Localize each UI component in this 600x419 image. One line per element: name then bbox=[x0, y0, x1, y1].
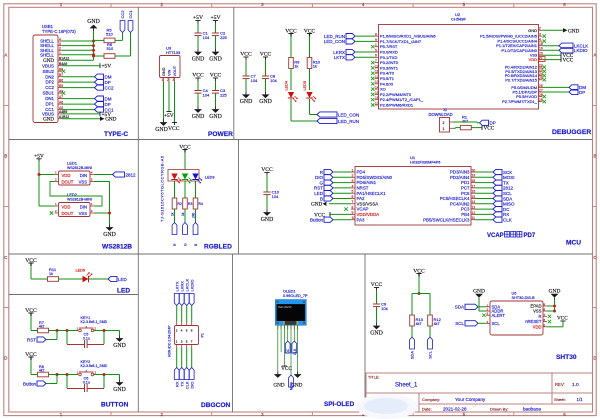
ground flag above U6 ADDR bbox=[473, 289, 486, 312]
svg-text:4: 4 bbox=[59, 37, 61, 41]
svg-text:GND: GND bbox=[568, 28, 579, 34]
wire DBGCON top pin bbox=[176, 306, 178, 323]
IC LED1 WS2812B-MINI bbox=[55, 161, 95, 186]
svg-text:GND: GND bbox=[155, 127, 168, 133]
svg-text:GND: GND bbox=[192, 114, 205, 120]
svg-text:VDD: VDD bbox=[62, 205, 71, 210]
svg-text:BUTTON: BUTTON bbox=[101, 402, 129, 409]
net flag DP at J1 bbox=[477, 120, 496, 125]
svg-text:RGBLED: RGBLED bbox=[204, 244, 232, 251]
net flag LKDIO at P1.0 bbox=[543, 48, 589, 53]
svg-text:1k: 1k bbox=[49, 272, 53, 276]
svg-text:P3.5/T1: P3.5/T1 bbox=[380, 76, 395, 81]
svg-text:240: 240 bbox=[192, 212, 196, 218]
svg-text:SBU1: SBU1 bbox=[43, 91, 55, 96]
svg-text:VCC: VCC bbox=[563, 58, 574, 64]
net flag DIO at DBGCON bottom bbox=[189, 368, 194, 389]
svg-text:PC6: PC6 bbox=[461, 191, 470, 196]
net flag CC2 (pin CC2) bbox=[62, 85, 114, 90]
svg-text:18: 18 bbox=[472, 179, 476, 183]
svg-text:13: 13 bbox=[375, 80, 379, 84]
svg-text:104: 104 bbox=[251, 78, 258, 83]
net flag SCL at U6 bbox=[455, 321, 486, 326]
svg-text:A8: A8 bbox=[59, 89, 63, 93]
power flag VCC above R10 bbox=[304, 28, 316, 36]
svg-text:GND: GND bbox=[43, 117, 54, 122]
no-connect ALERT bbox=[482, 314, 485, 317]
svg-text:GND: GND bbox=[113, 387, 126, 393]
svg-text:4k7: 4k7 bbox=[434, 322, 440, 326]
regulator U3 HT7133 bbox=[160, 46, 182, 83]
svg-text:VDD/VDDA: VDD/VDDA bbox=[357, 212, 380, 217]
svg-text:HK32F030MF4P6: HK32F030MF4P6 bbox=[410, 161, 440, 165]
connector J1 DOWNLOAD bbox=[429, 108, 454, 132]
svg-text:7: 7 bbox=[375, 59, 377, 63]
power flag VCC at OLED bbox=[281, 366, 292, 372]
svg-text:K2-3.6x6.1_SMD: K2-3.6x6.1_SMD bbox=[81, 364, 108, 368]
ground flag at VSS/VSSA bbox=[311, 202, 351, 208]
svg-text:5: 5 bbox=[352, 190, 354, 194]
capacitor C3 225 bbox=[209, 73, 227, 120]
resistor R7 4k7 bbox=[31, 316, 49, 333]
svg-text:WS2812B-MINI: WS2812B-MINI bbox=[67, 166, 92, 170]
OLED pin stubs bbox=[278, 325, 298, 329]
net flag RST at NRST bbox=[314, 185, 351, 190]
wire DBGCON top pin bbox=[191, 306, 193, 323]
svg-text:10: 10 bbox=[352, 216, 356, 220]
svg-text:P5.7/RST: P5.7/RST bbox=[380, 44, 398, 49]
svg-text:14: 14 bbox=[375, 86, 379, 90]
svg-text:PB4: PB4 bbox=[461, 212, 470, 217]
svg-text:GND: GND bbox=[209, 56, 222, 62]
ground flag below U3 bbox=[155, 120, 168, 133]
wire U3 VOUT pin down bbox=[174, 82, 176, 123]
svg-text:baobaoa: baobaoa bbox=[523, 406, 541, 411]
wire LED1 DOUT to LED2 DIN bbox=[50, 182, 102, 207]
power flag VCC at U3 VOUT bbox=[168, 123, 180, 132]
resistor R3 1k bbox=[181, 198, 192, 216]
net flag RX at MCU right bbox=[475, 212, 509, 217]
svg-text:19: 19 bbox=[539, 47, 543, 51]
net flag B at PA2 bbox=[320, 196, 351, 201]
svg-text:2812: 2812 bbox=[503, 186, 514, 191]
svg-text:3: 3 bbox=[59, 42, 61, 46]
svg-text:VBUS: VBUS bbox=[42, 112, 54, 117]
svg-text:VCC: VCC bbox=[240, 52, 252, 58]
svg-text:LED_CON: LED_CON bbox=[338, 112, 359, 117]
svg-text:P3.2/INT0: P3.2/INT0 bbox=[380, 60, 399, 65]
svg-text:25: 25 bbox=[539, 76, 543, 80]
svg-text:P3.3/INT1: P3.3/INT1 bbox=[380, 65, 399, 70]
no-connect SBU1 bbox=[62, 91, 65, 94]
svg-text:2: 2 bbox=[443, 121, 445, 125]
ground flag OLED left bbox=[273, 372, 284, 389]
svg-text:27: 27 bbox=[539, 88, 543, 92]
wire LED1 VSS to LED2 VSS to GND bbox=[94, 182, 111, 225]
wire VCC split to R13 R12 bbox=[412, 277, 430, 315]
capacitor C1 104 bbox=[192, 15, 210, 62]
svg-text:3: 3 bbox=[352, 179, 354, 183]
power flag +5V at U3 VIN bbox=[164, 112, 174, 120]
svg-text:104: 104 bbox=[203, 35, 210, 40]
svg-text:VCC: VCC bbox=[371, 282, 383, 288]
ground flag at TYPE-C shell bbox=[87, 19, 100, 31]
svg-text:LED4: LED4 bbox=[285, 81, 289, 91]
net flag DM at P5.0 bbox=[543, 85, 587, 90]
power flag VCC KEY2 bbox=[25, 352, 37, 360]
net flag CC1 vertical bbox=[128, 10, 133, 56]
svg-text:VSS: VSS bbox=[79, 179, 88, 184]
svg-text:1k: 1k bbox=[171, 212, 175, 216]
svg-text:SHT30-DIS-B: SHT30-DIS-B bbox=[512, 296, 536, 300]
svg-text:G: G bbox=[184, 243, 188, 246]
svg-text:DIN: DIN bbox=[80, 205, 87, 210]
svg-text:VCC: VCC bbox=[179, 144, 191, 150]
svg-text:DM: DM bbox=[105, 96, 112, 101]
power flag +5V at lower VBUS bbox=[62, 112, 111, 118]
wire DBGCON bottom pin bbox=[176, 348, 178, 368]
svg-text:17: 17 bbox=[375, 101, 379, 105]
svg-text:VCC: VCC bbox=[210, 73, 222, 79]
svg-text:2: 2 bbox=[539, 27, 541, 31]
svg-text:TYPE-C 16P(073): TYPE-C 16P(073) bbox=[42, 29, 76, 34]
wire R8 to key and tag bbox=[46, 373, 78, 384]
svg-text:225: 225 bbox=[220, 35, 227, 40]
svg-text:R3: R3 bbox=[188, 202, 192, 206]
svg-text:1/1: 1/1 bbox=[577, 397, 584, 402]
svg-text:GND: GND bbox=[273, 382, 284, 388]
svg-text:RST: RST bbox=[27, 337, 36, 342]
svg-text:11: 11 bbox=[375, 70, 379, 74]
svg-text:510: 510 bbox=[106, 31, 113, 36]
svg-text:LED5: LED5 bbox=[303, 81, 307, 91]
svg-text:LED6: LED6 bbox=[76, 269, 86, 273]
svg-text:10: 10 bbox=[375, 64, 379, 68]
svg-text:VBUS: VBUS bbox=[42, 63, 54, 68]
power flag VCC LED section bbox=[25, 258, 37, 266]
svg-text:LED_CON: LED_CON bbox=[324, 39, 345, 44]
IC U6 SHT30-DIS-B bbox=[486, 292, 547, 336]
power flag VCC RGBLED bbox=[179, 144, 191, 152]
svg-text:LED_RUN: LED_RUN bbox=[324, 34, 345, 39]
svg-text:Button: Button bbox=[310, 218, 324, 223]
svg-text:PD7: PD7 bbox=[524, 233, 536, 239]
IC U2 CH549F bbox=[375, 12, 546, 109]
capacitor C4 104 bbox=[192, 73, 210, 120]
svg-text:VCAP: VCAP bbox=[357, 207, 369, 212]
svg-text:MISO: MISO bbox=[503, 202, 515, 207]
svg-text:4: 4 bbox=[352, 184, 354, 188]
svg-text:DM: DM bbox=[105, 75, 112, 80]
svg-text:PA1/HSECLK1: PA1/HSECLK1 bbox=[357, 191, 387, 196]
net flag CLK at OLED bbox=[292, 341, 297, 355]
svg-text:DC: DC bbox=[286, 348, 290, 353]
svg-text:B: B bbox=[4, 154, 7, 159]
wire SHELL bus to GND bbox=[62, 31, 95, 60]
svg-text:20: 20 bbox=[539, 52, 543, 56]
svg-text:2812: 2812 bbox=[126, 172, 137, 177]
power flag VCC above R13/R12 bbox=[413, 268, 425, 276]
power flag VCC at U6 VDD bbox=[547, 316, 568, 327]
svg-text:GND: GND bbox=[105, 117, 116, 123]
svg-text:SBU2: SBU2 bbox=[43, 69, 55, 74]
svg-text:SPI-OLED: SPI-OLED bbox=[324, 401, 355, 408]
svg-text:26: 26 bbox=[539, 84, 543, 88]
svg-text:6: 6 bbox=[352, 195, 354, 199]
LED LED5 bbox=[303, 69, 316, 115]
svg-text:DC: DC bbox=[503, 207, 510, 212]
svg-text:A: A bbox=[594, 53, 597, 58]
power flag VCC KEY1 bbox=[25, 308, 37, 316]
svg-text:VOUT: VOUT bbox=[173, 65, 177, 76]
svg-text:TJ-S1615CY6TGLCCYRGB-A5: TJ-S1615CY6TGLCCYRGB-A5 bbox=[160, 155, 165, 222]
no-connect R pin bbox=[548, 315, 551, 318]
svg-text:RST: RST bbox=[314, 186, 323, 191]
switch KEY1 K2-3.6x6.1_SMD bbox=[77, 316, 108, 332]
resistor R12 4k7 bbox=[428, 315, 442, 326]
svg-text:1: 1 bbox=[59, 51, 61, 55]
svg-text:C: C bbox=[593, 255, 596, 260]
svg-text:GND: GND bbox=[259, 99, 272, 105]
wire R11 to LED6 bbox=[59, 278, 83, 280]
svg-text:DP: DP bbox=[105, 80, 111, 85]
wire DBGCON bottom pin bbox=[191, 348, 193, 368]
title block bbox=[366, 373, 593, 412]
resistor R2 1k bbox=[171, 198, 182, 216]
svg-text:VSS: VSS bbox=[533, 309, 542, 314]
net flag CLK at MCU right bbox=[475, 217, 512, 222]
net flag SDA at MCU right bbox=[475, 196, 512, 201]
watermark blob bbox=[356, 394, 418, 419]
svg-text:15: 15 bbox=[375, 91, 379, 95]
net flag LED_CON bbox=[310, 112, 360, 117]
net flag DC at MCU right bbox=[475, 207, 510, 212]
resistor R6 510 bbox=[92, 42, 131, 58]
svg-text:CC1: CC1 bbox=[128, 10, 133, 19]
connector USB1 TYPE-C 16P(073) bbox=[33, 24, 76, 122]
net flag R vertical bbox=[172, 209, 177, 246]
svg-text:DIO: DIO bbox=[189, 382, 194, 389]
svg-text:18: 18 bbox=[539, 42, 543, 46]
svg-text:C: C bbox=[4, 255, 7, 260]
svg-text:VCC: VCC bbox=[25, 308, 37, 314]
svg-text:DBGCON: DBGCON bbox=[201, 402, 231, 409]
svg-text:4k7: 4k7 bbox=[416, 322, 422, 326]
no-connect VCAP bbox=[344, 207, 347, 210]
display OLED1 0.96OLED_7P bbox=[275, 290, 308, 326]
ground flag WS2812B bbox=[103, 225, 116, 238]
wire DBGCON top pin bbox=[181, 306, 183, 323]
note VCAP usable as PD7 bbox=[487, 232, 536, 240]
net flag LKCLK at DBGCON top bbox=[184, 278, 189, 305]
svg-text:1k: 1k bbox=[181, 212, 185, 216]
svg-text:9: 9 bbox=[352, 211, 354, 215]
svg-text:+5V: +5V bbox=[211, 15, 221, 21]
wire KEY1 to GND bbox=[94, 329, 120, 336]
svg-text:LED: LED bbox=[118, 277, 128, 282]
wire LED6 to LED tag bbox=[89, 278, 109, 280]
svg-text:0.1u: 0.1u bbox=[83, 337, 90, 341]
svg-text:225: 225 bbox=[220, 92, 227, 97]
net flag 2812 at LED1 DIN bbox=[94, 172, 136, 177]
svg-text:104: 104 bbox=[272, 194, 279, 199]
svg-text:SDA: SDA bbox=[410, 351, 415, 360]
svg-text:P3.0/RXD: P3.0/RXD bbox=[380, 50, 398, 55]
power flag +5V WS2812B bbox=[34, 153, 44, 161]
svg-text:P2.2/PWM3/INT0: P2.2/PWM3/INT0 bbox=[380, 92, 412, 97]
svg-text:G: G bbox=[319, 180, 323, 185]
LED LED3 RGB TJ-S1615CY6TGLCCYRGB-A5 bbox=[160, 153, 215, 222]
svg-text:P1: P1 bbox=[201, 333, 205, 337]
svg-text:LED: LED bbox=[117, 288, 130, 295]
svg-text:8: 8 bbox=[375, 33, 377, 37]
svg-text:2: 2 bbox=[59, 47, 61, 51]
svg-text:VCC: VCC bbox=[261, 167, 273, 173]
svg-text:4k7: 4k7 bbox=[462, 119, 468, 123]
wire J1 pin2 to DP tag bbox=[454, 121, 478, 124]
svg-text:PC4/AIN2: PC4/AIN2 bbox=[450, 201, 470, 206]
svg-text:P2.4/PWM1/T2_/CAP1_: P2.4/PWM1/T2_/CAP1_ bbox=[380, 97, 424, 102]
svg-text:PD3/AIN3: PD3/AIN3 bbox=[450, 170, 470, 175]
svg-text:U6: U6 bbox=[512, 292, 517, 296]
svg-text:DOUT: DOUT bbox=[62, 179, 74, 184]
svg-text:VCC: VCC bbox=[285, 28, 297, 34]
svg-text:VSS/VSSA: VSS/VSSA bbox=[357, 201, 379, 206]
net flag CC2 vertical bbox=[120, 10, 125, 41]
net flag LKRX at DBGCON top bbox=[179, 281, 184, 306]
ground flag KEY2 bbox=[113, 380, 126, 393]
power flag VCC at R1 bbox=[471, 125, 494, 131]
svg-text:16: 16 bbox=[375, 96, 379, 100]
svg-text:ALERT: ALERT bbox=[492, 313, 506, 318]
svg-text:REV:: REV: bbox=[555, 382, 565, 387]
net flag DP (DP2) bbox=[62, 80, 111, 85]
svg-text:12: 12 bbox=[472, 211, 476, 215]
net flag LED_CON at P1.7 bbox=[324, 39, 375, 44]
LED LED6 bbox=[76, 269, 93, 283]
svg-text:TYPE-C: TYPE-C bbox=[104, 131, 128, 138]
svg-text:Your Company: Your Company bbox=[455, 397, 486, 402]
IC U1 HK32F030MF4P6 bbox=[351, 155, 475, 225]
svg-text:8: 8 bbox=[352, 206, 354, 210]
net flag LKDIO at DBGCON top bbox=[189, 279, 194, 305]
svg-text:28: 28 bbox=[539, 93, 543, 97]
svg-text:P0.7/TXD3/AIN15: P0.7/TXD3/AIN15 bbox=[505, 77, 538, 82]
no-connects U2 right pins bbox=[543, 34, 546, 103]
svg-text:GND: GND bbox=[162, 67, 166, 76]
svg-text:VCC: VCC bbox=[304, 28, 316, 34]
svg-text:VCC: VCC bbox=[168, 126, 180, 132]
wire J1 to R1 bbox=[454, 127, 461, 130]
capacitor C10 104 bbox=[261, 167, 280, 223]
net flag LED bbox=[108, 276, 128, 281]
svg-text:1: 1 bbox=[375, 43, 377, 47]
svg-text:Sheet:: Sheet: bbox=[554, 397, 566, 402]
svg-text:Date:: Date: bbox=[422, 406, 432, 411]
svg-text:DIO: DIO bbox=[315, 175, 324, 180]
svg-text:SCL: SCL bbox=[492, 321, 501, 326]
resistor R13 4k7 bbox=[410, 315, 424, 326]
net flag TX at DBGCON bottom bbox=[179, 368, 184, 387]
svg-text:VDD: VDD bbox=[529, 57, 538, 62]
svg-text:DP1: DP1 bbox=[45, 102, 54, 107]
net flag Button at PA3 bbox=[310, 217, 351, 222]
svg-text:B: B bbox=[320, 196, 323, 201]
svg-text:B8: B8 bbox=[59, 68, 63, 72]
svg-text:CH549F: CH549F bbox=[451, 17, 466, 22]
svg-text:0.1u: 0.1u bbox=[83, 381, 90, 385]
svg-text:CC2: CC2 bbox=[120, 10, 125, 19]
net flag LED_RUN bbox=[291, 118, 359, 123]
wire VCC to R11 bbox=[31, 266, 47, 279]
ground flag at U6 EPAD/VSS bbox=[547, 289, 560, 313]
net flag MOSI at OLED bbox=[289, 375, 294, 390]
svg-text:DN2: DN2 bbox=[45, 74, 54, 79]
svg-text:1: 1 bbox=[443, 127, 445, 131]
svg-text:GND: GND bbox=[549, 289, 561, 295]
svg-text:XO: XO bbox=[380, 87, 386, 92]
net flag LED at PA1 bbox=[314, 191, 351, 196]
resistor R5 510 bbox=[94, 28, 123, 43]
resistor R9 1k bbox=[289, 36, 300, 68]
svg-text:TX: TX bbox=[503, 180, 509, 185]
wire U3 GND pin down bbox=[163, 82, 165, 120]
power flag VCC at VDD bbox=[543, 57, 574, 63]
svg-text:3: 3 bbox=[539, 33, 541, 37]
no-connects U2 left pins bbox=[371, 45, 374, 107]
svg-text:GND: GND bbox=[209, 114, 222, 120]
svg-text:VCC: VCC bbox=[484, 126, 495, 132]
svg-text:2021-02-28: 2021-02-28 bbox=[443, 406, 467, 411]
svg-text:5: 5 bbox=[375, 48, 377, 52]
net flag RST bbox=[27, 337, 46, 342]
wire RGB leds to resistors bbox=[175, 181, 196, 198]
svg-text:PA2: PA2 bbox=[357, 196, 366, 201]
svg-text:LKDIO: LKDIO bbox=[574, 48, 588, 53]
no-connect LED2 DOUT bbox=[50, 211, 53, 214]
svg-text:SCL: SCL bbox=[428, 350, 433, 359]
svg-text:VCC: VCC bbox=[260, 52, 272, 58]
svg-text:11: 11 bbox=[472, 216, 476, 220]
svg-text:PA3: PA3 bbox=[357, 217, 366, 222]
svg-text:CLK: CLK bbox=[503, 218, 512, 223]
svg-text:DP: DP bbox=[105, 102, 111, 107]
capacitor C7 104 bbox=[240, 52, 258, 106]
svg-text:LED1: LED1 bbox=[67, 161, 78, 166]
svg-text:GND: GND bbox=[311, 202, 322, 208]
svg-text:P2.7/PWM7/TXD1_: P2.7/PWM7/TXD1_ bbox=[502, 99, 538, 104]
svg-text:VCC: VCC bbox=[413, 268, 425, 274]
IC LED2 WS2812B-MINI bbox=[55, 192, 95, 217]
power flag +5V at VBUS bbox=[62, 63, 111, 69]
svg-text:104: 104 bbox=[203, 92, 210, 97]
svg-text:LKRX: LKRX bbox=[333, 50, 345, 55]
svg-text:P1.7/SCK/TXD1_/AIN7: P1.7/SCK/TXD1_/AIN7 bbox=[380, 39, 422, 44]
svg-text:1k: 1k bbox=[313, 64, 317, 69]
svg-text:VDD: VDD bbox=[62, 173, 71, 178]
svg-text:9: 9 bbox=[375, 38, 377, 42]
svg-text:VCC: VCC bbox=[557, 316, 568, 322]
svg-text:PC3: PC3 bbox=[461, 207, 470, 212]
wire KEY2 to GND bbox=[94, 373, 120, 380]
wire +5V rail to LED1/LED2 VDD bbox=[38, 162, 55, 207]
resistor R10 1k bbox=[307, 36, 321, 68]
svg-text:4: 4 bbox=[539, 38, 541, 42]
net flag LED_RUN at P1.6 bbox=[324, 34, 375, 39]
svg-text:VCC: VCC bbox=[192, 73, 204, 79]
svg-text:1: 1 bbox=[352, 168, 354, 172]
switch KEY2 K2-3.6x6.1_SMD bbox=[77, 360, 108, 376]
